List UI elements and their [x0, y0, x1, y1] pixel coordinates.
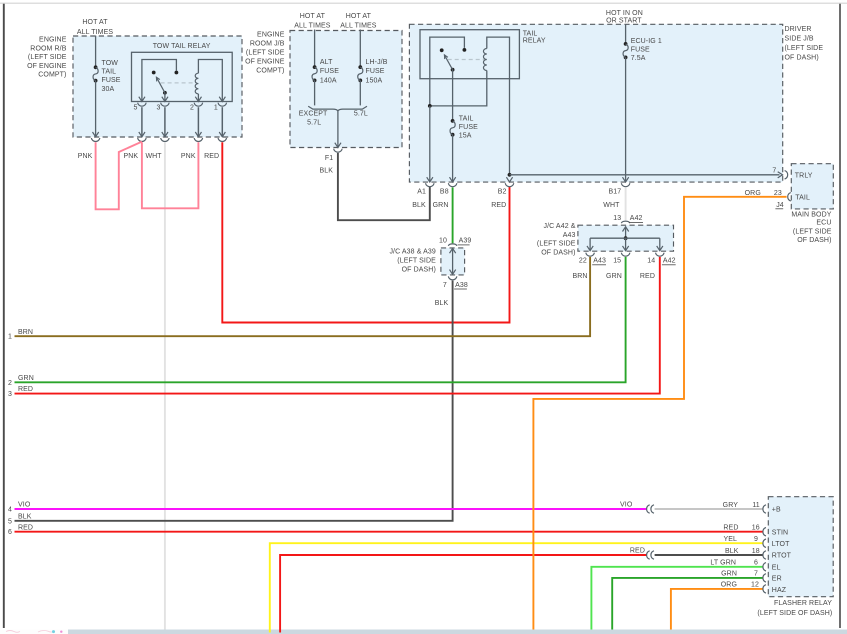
svg-text:SIDE J/B: SIDE J/B	[785, 36, 814, 43]
wire YEL stub crossing strip	[269, 630, 271, 633]
labels ORG 12	[721, 582, 759, 589]
R/B box bottom connector for pin 2 wire	[195, 132, 201, 137]
relay case pin 2 connector	[195, 97, 201, 102]
svg-text:WHT: WHT	[145, 153, 162, 160]
net 5 BLK label	[8, 513, 32, 525]
svg-text:A38: A38	[455, 282, 468, 289]
svg-text:FUSE: FUSE	[102, 77, 121, 84]
pin 15 connector cup	[621, 253, 630, 256]
svg-text:TOW TAIL RELAY: TOW TAIL RELAY	[153, 43, 211, 50]
wire ALT fuse output to brace	[314, 80, 316, 105]
svg-text:BLK: BLK	[319, 168, 333, 175]
svg-text:YEL: YEL	[723, 536, 737, 543]
label J/C A42 & A43 (LEFT SIDE OF DASH)	[537, 223, 576, 256]
net 3 RED label	[8, 386, 33, 398]
svg-text:23: 23	[774, 190, 782, 197]
svg-text:TAIL: TAIL	[795, 195, 810, 202]
pin 11 +B connector	[763, 505, 766, 513]
svg-text:ORG: ORG	[745, 190, 761, 197]
module: MAIN BODY ECU box	[791, 164, 833, 209]
pin 14 A42 connector cup	[656, 253, 665, 256]
svg-text:6: 6	[8, 529, 12, 536]
wire coil top to pin B2 branch	[487, 37, 510, 175]
pin labels 22 A43 15 14 A42	[579, 258, 676, 265]
fuse TOW TAIL FUSE 30A	[94, 65, 98, 69]
svg-text:ECU: ECU	[816, 220, 831, 227]
pin 16 STIN connector	[763, 528, 766, 536]
svg-text:GRY: GRY	[723, 502, 739, 509]
wire relay pin 5 to R/B box edge	[141, 107, 143, 136]
wire WHT pin B17 to J/C A42 pin 13	[625, 187, 627, 220]
pin 7 A38 connector cup	[448, 276, 457, 279]
svg-text:COMPT): COMPT)	[256, 67, 284, 74]
svg-text:EL: EL	[772, 565, 781, 572]
pin 7 connector into MAIN BODY ECU (TRLY)	[778, 172, 783, 178]
svg-text:A43: A43	[563, 232, 576, 239]
wire RED pin 14 to edge wire 3	[15, 257, 660, 394]
svg-text:F1: F1	[325, 155, 333, 162]
svg-text:RTOT: RTOT	[772, 553, 792, 560]
wire ORG from bottom to flasher HAZ	[671, 589, 763, 630]
fuse TAIL FUSE 15A	[451, 119, 455, 123]
wire relay pin 1 to R/B box edge	[221, 107, 223, 136]
svg-text:140A: 140A	[320, 78, 337, 85]
label TOW TAIL FUSE 30A	[102, 60, 121, 93]
pin 9 LTOT connector	[763, 539, 766, 547]
svg-text:+B: +B	[772, 507, 781, 514]
svg-text:VIO: VIO	[620, 501, 633, 508]
svg-text:MAIN BODY: MAIN BODY	[791, 212, 831, 219]
svg-text:J/C A38 & A39: J/C A38 & A39	[389, 249, 435, 256]
wire hot feed into ECU-IG 1 FUSE	[625, 24, 627, 44]
svg-text:OF DASH): OF DASH)	[785, 54, 819, 61]
label TAIL FUSE 15A	[459, 115, 478, 139]
wire GRN from bottom to flasher ER	[612, 578, 762, 630]
pin B8 connector at driver side J/B bottom	[450, 177, 456, 182]
page frame top line	[0, 2, 847, 4]
fuse ALT FUSE 140A	[313, 65, 317, 69]
wire moving contact to TAIL FUSE	[452, 70, 454, 121]
pin 12 HAZ connector	[763, 585, 766, 593]
svg-text:3: 3	[157, 105, 161, 112]
fuse LH-J/B FUSE 150A	[358, 65, 362, 69]
relay case pin 1 connector	[219, 97, 225, 102]
svg-text:HOT IN ON: HOT IN ON	[606, 10, 643, 17]
label DRIVER SIDE J/B (LEFT SIDE OF DASH)	[785, 26, 824, 61]
svg-text:FUSE: FUSE	[320, 68, 339, 75]
svg-text:GRN: GRN	[18, 375, 34, 382]
wire coil bottom to A1 node	[430, 71, 487, 106]
svg-text:9: 9	[754, 536, 758, 543]
underline A43	[592, 264, 606, 266]
relay actuation dashed link	[161, 82, 196, 84]
wire BLK J/C A38 down and left to edge wire 5	[15, 281, 453, 521]
wire ECU-IG fuse to pin B17	[625, 57, 627, 181]
wire coil top to pin 1 branch	[198, 60, 222, 102]
svg-text:4: 4	[8, 507, 12, 514]
svg-text:22: 22	[579, 258, 587, 265]
wire node to pin 15	[625, 238, 627, 250]
label ALT FUSE 140A	[320, 59, 339, 85]
svg-text:OR START: OR START	[606, 17, 642, 24]
svg-text:PNK: PNK	[78, 153, 93, 160]
underline A39	[458, 244, 470, 246]
svg-text:1: 1	[8, 334, 12, 341]
junction node on B2 line	[508, 173, 512, 177]
svg-text:5.7L: 5.7L	[354, 111, 368, 118]
svg-text:RED: RED	[204, 153, 219, 160]
svg-text:HAZ: HAZ	[772, 587, 787, 594]
merge brace EXCEPT 5.7L / 5.7L	[308, 106, 367, 111]
svg-text:TRLY: TRLY	[795, 173, 813, 180]
R/B box bottom connector for pin 5 wire	[139, 132, 145, 137]
svg-text:GRN: GRN	[433, 202, 449, 209]
svg-text:ALT: ALT	[320, 59, 333, 66]
svg-text:ORG: ORG	[721, 582, 737, 589]
wire TAIL FUSE to pin B8	[452, 135, 454, 182]
svg-text:(LEFT SIDE: (LEFT SIDE	[246, 49, 285, 56]
wire tail relay fixed-contact branch to A1	[430, 37, 465, 106]
pin 22 A43 connector cup	[586, 253, 595, 256]
svg-text:(LEFT SIDE: (LEFT SIDE	[28, 54, 67, 61]
svg-text:6: 6	[754, 560, 758, 567]
svg-text:RED: RED	[723, 525, 738, 532]
wire node to pin 14	[659, 238, 661, 250]
svg-text:(LEFT SIDE: (LEFT SIDE	[537, 241, 576, 248]
svg-text:LT GRN: LT GRN	[710, 560, 736, 567]
net 2 GRN label	[8, 375, 34, 387]
svg-text:ENGINE: ENGINE	[257, 31, 285, 38]
wire VIO edge wire 4 to splice	[15, 508, 647, 510]
power feed label HOT AT ALL TIMES (LH-J/B fuse)	[340, 13, 377, 30]
svg-text:7: 7	[443, 282, 447, 289]
svg-text:RELAY: RELAY	[523, 38, 546, 45]
wire PNK relay pin 5 loop to relay pin 2	[142, 142, 199, 208]
pin labels A1 B8 B2 B17	[417, 189, 621, 196]
labels RED BLK 18	[630, 548, 760, 555]
svg-text:OF ENGINE: OF ENGINE	[245, 58, 285, 65]
junction connector: J/C A38 & A39 box	[441, 248, 465, 275]
relay case pin 3 connector	[162, 97, 168, 102]
relay switch blade with arrow	[156, 77, 165, 93]
junction block: ENGINE ROOM R/B box	[73, 36, 242, 137]
svg-text:OF DASH): OF DASH)	[402, 267, 436, 274]
svg-text:30A: 30A	[102, 86, 115, 93]
junction connector: J/C A42 & A43 box	[578, 225, 674, 251]
svg-text:LH-J/B: LH-J/B	[366, 59, 388, 66]
labels RED 16	[723, 525, 759, 532]
svg-text:14: 14	[647, 258, 655, 265]
label ECU-IG 1 FUSE 7.5A	[631, 38, 662, 62]
svg-text:TAIL: TAIL	[523, 30, 538, 37]
page frame right border	[839, 4, 841, 628]
tail relay actuation dashed link	[448, 59, 484, 61]
svg-text:OF DASH): OF DASH)	[541, 249, 575, 256]
label MAIN BODY ECU (LEFT SIDE OF DASH)	[791, 212, 831, 244]
wire GRN pin B8 to J/C A39 pin 10	[452, 187, 454, 243]
svg-text:PNK: PNK	[181, 153, 196, 160]
svg-text:5.7L: 5.7L	[307, 119, 321, 126]
svg-text:A39: A39	[459, 238, 472, 245]
svg-text:7.5A: 7.5A	[631, 55, 646, 62]
wire hot feed into ALT FUSE	[314, 30, 316, 68]
pin 6 EL connector	[763, 563, 766, 571]
svg-text:J/C A42 &: J/C A42 &	[543, 223, 575, 230]
relay TOW TAIL RELAY case	[132, 52, 233, 101]
svg-text:7: 7	[754, 571, 758, 578]
pin connector at R/B box bottom (fuse output)	[93, 132, 99, 137]
svg-text:A1: A1	[417, 189, 426, 196]
svg-text:(LEFT SIDE: (LEFT SIDE	[785, 45, 824, 52]
underline J4	[775, 208, 783, 210]
svg-text:DRIVER: DRIVER	[785, 26, 812, 33]
wire GRN pin 15 to edge wire 2	[15, 257, 626, 382]
svg-text:BLK: BLK	[18, 513, 32, 520]
wire LT GRN from bottom to flasher EL	[591, 567, 762, 630]
svg-text:(LEFT SIDE: (LEFT SIDE	[793, 228, 832, 235]
relay coil TAIL RELAY	[483, 49, 486, 71]
svg-text:2: 2	[8, 380, 12, 387]
net 4 VIO label	[8, 502, 31, 514]
relay case pin 5 connector	[139, 97, 145, 102]
wire color labels BLK GRN RED WHT	[412, 202, 620, 209]
pin B2 connector at driver side J/B bottom	[506, 177, 512, 182]
contact dot (moving) TOW TAIL RELAY	[163, 91, 167, 95]
wire pin 13 into junction node	[625, 227, 627, 239]
wire relay pin 2 to R/B box edge	[197, 107, 199, 136]
svg-text:OF DASH): OF DASH)	[797, 237, 831, 244]
svg-text:A42: A42	[630, 215, 643, 222]
labels GRN 7	[721, 571, 758, 578]
wire RED from bottom to splice (RTOT)	[280, 555, 647, 633]
svg-text:18: 18	[752, 548, 760, 555]
wire ORG main body ECU TAIL pin toward flasher feed	[533, 197, 786, 400]
wire BLK F1 to tail relay pin A1	[338, 153, 430, 220]
wire fuse output to R/B pin	[95, 81, 97, 137]
pin 18 RTOT connector	[763, 551, 766, 559]
svg-text:FUSE: FUSE	[366, 68, 385, 75]
svg-text:ECU-IG 1: ECU-IG 1	[631, 38, 662, 45]
svg-text:J4: J4	[776, 202, 784, 209]
svg-text:150A: 150A	[366, 78, 383, 85]
svg-text:15: 15	[613, 258, 621, 265]
svg-text:ALL TIMES: ALL TIMES	[294, 23, 331, 30]
svg-text:TAIL: TAIL	[459, 115, 474, 122]
wire BLK splice to flasher RTOT	[655, 554, 763, 556]
svg-text:1: 1	[214, 105, 218, 112]
pin 23 J4 connector into MAIN BODY ECU (TAIL)	[788, 193, 791, 201]
pin B17 connector at driver side J/B bottom	[623, 177, 629, 182]
wire relay fixed-contact branch to pin 5	[142, 60, 177, 102]
svg-text:ROOM R/B: ROOM R/B	[30, 45, 66, 52]
module: FLASHER RELAY box	[768, 497, 833, 597]
wire A1 node down to pin A1	[429, 106, 431, 182]
contact dot (moving) TAIL RELAY	[451, 68, 455, 72]
pin 10 A39 connector cap	[448, 244, 457, 246]
wire LH-J/B fuse output to brace	[359, 80, 361, 105]
svg-text:RED: RED	[640, 273, 655, 280]
wire RED stub crossing strip	[279, 630, 281, 633]
fuse ECU-IG 1 FUSE 7.5A	[624, 42, 628, 46]
wire coil bottom to pin 2	[197, 94, 199, 101]
wire PNK fuse-output loop to relay pin 5	[96, 142, 142, 210]
svg-text:PNK: PNK	[123, 153, 138, 160]
label ENGINE ROOM R/B (LEFT SIDE OF ENGINE COMPT)	[27, 37, 67, 79]
underline A42 (pin 13)	[629, 222, 643, 224]
label FLASHER RELAY (LEFT SIDE OF DASH)	[757, 600, 832, 617]
svg-text:COMPT): COMPT)	[38, 72, 66, 79]
svg-text:FUSE: FUSE	[459, 124, 478, 131]
R/B box bottom connector for pin 3 wire	[162, 132, 168, 137]
junction node J/C A42-A43	[624, 236, 628, 240]
wire relay pin 3 to R/B box edge	[164, 107, 166, 136]
wire hot feed into TOW TAIL FUSE	[95, 36, 97, 68]
svg-text:BLK: BLK	[412, 202, 426, 209]
svg-text:RED: RED	[18, 386, 33, 393]
svg-text:ENGINE: ENGINE	[39, 37, 67, 44]
wire node to pin 22	[589, 238, 591, 250]
svg-text:FLASHER RELAY: FLASHER RELAY	[774, 600, 832, 607]
wire through J/C A38-A39 with arrows	[452, 249, 454, 273]
svg-text:BLK: BLK	[435, 300, 449, 307]
svg-text:5: 5	[134, 105, 138, 112]
svg-text:BRN: BRN	[18, 329, 33, 336]
tail relay switch blade with arrow	[444, 55, 452, 70]
power feed label HOT AT ALL TIMES (tow tail fuse)	[77, 19, 114, 36]
R/B box bottom connector for pin 1 wire	[219, 132, 225, 137]
svg-text:FUSE: FUSE	[631, 47, 650, 54]
decor specks bottom left	[6, 630, 63, 633]
labels VIO GRY 11	[620, 501, 760, 509]
contact dot (fixed) TAIL RELAY	[463, 48, 467, 52]
pin 7 ER connector	[763, 574, 766, 582]
svg-text:HOT AT: HOT AT	[82, 19, 108, 26]
svg-text:B8: B8	[440, 189, 449, 196]
svg-text:TAIL: TAIL	[102, 69, 117, 76]
svg-text:A42: A42	[663, 258, 676, 265]
junction block: DRIVER SIDE J/B box	[409, 24, 782, 182]
relay coil TOW TAIL RELAY	[195, 73, 198, 94]
pin 13 A42 connector cap	[621, 221, 630, 223]
relay TAIL RELAY case	[420, 30, 519, 79]
svg-text:GRN: GRN	[606, 273, 622, 280]
wire GRY splice to flasher +B	[655, 508, 763, 510]
label J/C A38 & A39 (LEFT SIDE OF DASH)	[389, 249, 436, 274]
wire RED edge wire 6 to flasher STIN	[15, 531, 763, 533]
svg-text:RED: RED	[630, 548, 645, 555]
wire ORG vertical segment down page (crosses flasher wires)	[532, 399, 534, 630]
bottom scroll strip	[68, 630, 847, 634]
label EXCEPT 5.7L	[299, 111, 328, 127]
wire YEL from bottom to flasher LTOT	[270, 543, 763, 632]
wire WHT relay pin 3 down off page	[164, 142, 166, 629]
labels YEL 9	[723, 536, 758, 543]
contact dot (pivot) TAIL RELAY	[440, 48, 444, 52]
wire brace to J/B pin F1	[337, 111, 339, 147]
svg-text:HOT AT: HOT AT	[346, 13, 372, 20]
svg-text:7: 7	[772, 167, 776, 174]
splice RED to BLK	[647, 551, 650, 559]
wire moving contact to pin 3	[164, 93, 166, 102]
underline A38	[454, 288, 467, 290]
svg-text:TOW: TOW	[102, 60, 119, 67]
svg-text:3: 3	[8, 391, 12, 398]
power feed label HOT AT ALL TIMES (ALT fuse)	[294, 13, 331, 30]
svg-text:B2: B2	[498, 189, 507, 196]
relay TAIL RELAY title	[523, 30, 546, 44]
splice VIO to GRY	[647, 505, 650, 513]
svg-text:5: 5	[8, 518, 12, 525]
svg-text:VIO: VIO	[18, 502, 31, 509]
svg-text:LTOT: LTOT	[772, 541, 790, 548]
svg-text:12: 12	[751, 582, 759, 589]
junction block: ENGINE ROOM J/B box	[290, 31, 402, 148]
svg-text:A43: A43	[593, 258, 606, 265]
page frame left border	[3, 4, 5, 628]
junction bus bar	[590, 237, 660, 239]
power feed label HOT IN ON OR START	[606, 10, 643, 25]
contact dot (fixed) TOW TAIL RELAY	[175, 71, 179, 75]
pin F1 connector at J/B box bottom	[335, 143, 341, 148]
svg-text:2: 2	[190, 105, 194, 112]
svg-text:B17: B17	[609, 189, 622, 196]
wire B2 node to main body ECU pin 7	[510, 174, 780, 176]
svg-text:ALL TIMES: ALL TIMES	[77, 29, 114, 36]
label ENGINE ROOM J/B (LEFT SIDE OF ENGINE COMPT)	[245, 31, 285, 74]
svg-text:15A: 15A	[459, 133, 472, 140]
svg-text:ROOM J/B: ROOM J/B	[250, 40, 285, 47]
wire BRN pin 22 to edge wire 1	[15, 257, 591, 336]
svg-text:ALL TIMES: ALL TIMES	[340, 23, 377, 30]
svg-text:RED: RED	[18, 524, 33, 531]
svg-text:RED: RED	[491, 202, 506, 209]
underline A42 (pin 14)	[662, 264, 676, 266]
svg-text:HOT AT: HOT AT	[300, 13, 326, 20]
svg-text:(LEFT SIDE OF DASH): (LEFT SIDE OF DASH)	[757, 610, 832, 617]
svg-text:OF ENGINE: OF ENGINE	[27, 63, 67, 70]
wire color labels PNK PNK WHT PNK RED	[78, 153, 220, 160]
pin A1 connector at driver side J/B bottom	[427, 177, 433, 182]
svg-text:STIN: STIN	[772, 529, 788, 536]
svg-text:WHT: WHT	[603, 202, 620, 209]
net 6 RED label	[8, 524, 33, 536]
svg-text:13: 13	[613, 215, 621, 222]
label LH-J/B FUSE 150A	[366, 59, 388, 85]
net 1 BRN label	[8, 329, 33, 341]
wire color labels BRN GRN RED	[573, 273, 655, 280]
junction node on A1 line	[428, 104, 432, 108]
svg-text:ER: ER	[772, 576, 782, 583]
svg-text:BRN: BRN	[573, 273, 588, 280]
svg-text:16: 16	[752, 525, 760, 532]
svg-text:GRN: GRN	[721, 571, 737, 578]
svg-text:11: 11	[752, 502, 759, 509]
svg-text:EXCEPT: EXCEPT	[299, 111, 328, 118]
labels LT GRN 6	[710, 560, 758, 567]
wire hot feed into LH-J/B FUSE	[359, 30, 361, 68]
svg-text:(LEFT SIDE: (LEFT SIDE	[397, 258, 436, 265]
wire RED relay pin 1 to tail relay pin B2	[222, 142, 509, 322]
svg-text:10: 10	[439, 238, 447, 245]
contact dot (pivot) TOW TAIL RELAY	[152, 71, 156, 75]
svg-text:BLK: BLK	[725, 548, 739, 555]
